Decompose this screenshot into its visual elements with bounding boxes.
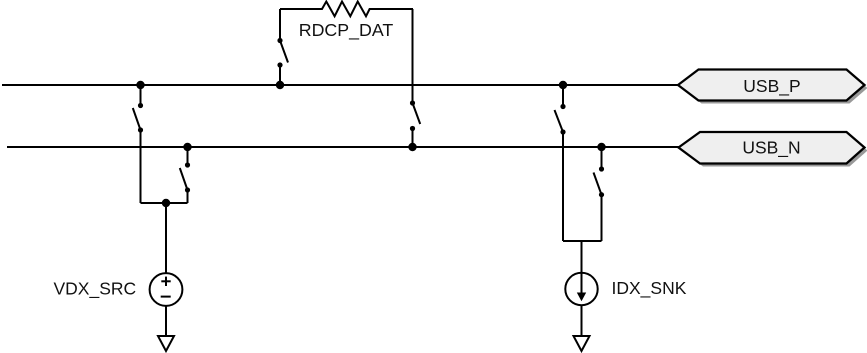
wire S2 down to bar <box>187 190 189 203</box>
voltage source VDX_SRC <box>150 273 183 306</box>
node junction USB_P left branch <box>136 81 144 89</box>
node junction USB_N right branch <box>597 143 605 151</box>
node junction VDX bar <box>162 199 170 207</box>
wire VDX_SRC to ground <box>165 306 167 336</box>
wire S1 down across USB_N to bar <box>140 130 142 203</box>
current sink IDX_SNK <box>565 273 597 305</box>
wire USB_P net <box>2 84 678 86</box>
wire USB_N to switch S2 <box>187 147 189 165</box>
wire resistor left leg upper <box>279 9 281 41</box>
wire left joining bar <box>141 202 188 204</box>
svg-text:IDX_SNK: IDX_SNK <box>612 278 687 299</box>
switch S5 (USB_P to IDX node) <box>555 104 566 135</box>
svg-text:USB_P: USB_P <box>743 76 800 97</box>
wire IDX_SNK to ground <box>581 305 583 336</box>
switch S6 (USB_N to IDX node) <box>594 166 605 197</box>
net flag USB_P shadow <box>681 73 867 104</box>
wire bar down to IDX_SNK <box>581 241 583 273</box>
wire S5 down across USB_N to bar <box>562 132 564 241</box>
wire USB_N net <box>7 146 679 148</box>
wire USB_P to switch S5 <box>562 85 564 107</box>
resistor RDCP_DAT <box>280 2 413 17</box>
wire bar down to VDX_SRC <box>165 203 167 273</box>
node junction USB_N left branch <box>183 143 191 151</box>
ground (right) <box>574 336 590 351</box>
node junction resistor/USB_P <box>276 81 284 89</box>
wire USB_P to switch S1 <box>140 85 142 106</box>
wire resistor right leg <box>412 9 414 103</box>
wire USB_N to switch S6 <box>601 147 603 169</box>
svg-text:USB_N: USB_N <box>742 137 800 158</box>
net flag USB_P <box>678 70 865 101</box>
wire right joining bar <box>563 240 602 242</box>
switch S4 (resistor to USB_N) <box>410 100 420 131</box>
switch S2 (USB_N to VDX node) <box>180 162 190 192</box>
wire resistor left leg lower <box>279 65 281 85</box>
wire S6 down to bar <box>601 195 603 241</box>
svg-text:RDCP_DAT: RDCP_DAT <box>299 20 394 41</box>
ground (left) <box>158 336 174 351</box>
node junction USB_P right branch <box>559 81 567 89</box>
switch S3 (resistor to USB_P) <box>277 38 288 68</box>
svg-text:VDX_SRC: VDX_SRC <box>54 279 137 300</box>
wire resistor right leg lower <box>412 129 414 148</box>
node junction resistor/USB_N <box>408 143 416 151</box>
net flag USB_N shadow <box>682 135 867 167</box>
net flag USB_N <box>679 132 865 164</box>
switch S1 (USB_P to VDX node) <box>133 103 143 133</box>
